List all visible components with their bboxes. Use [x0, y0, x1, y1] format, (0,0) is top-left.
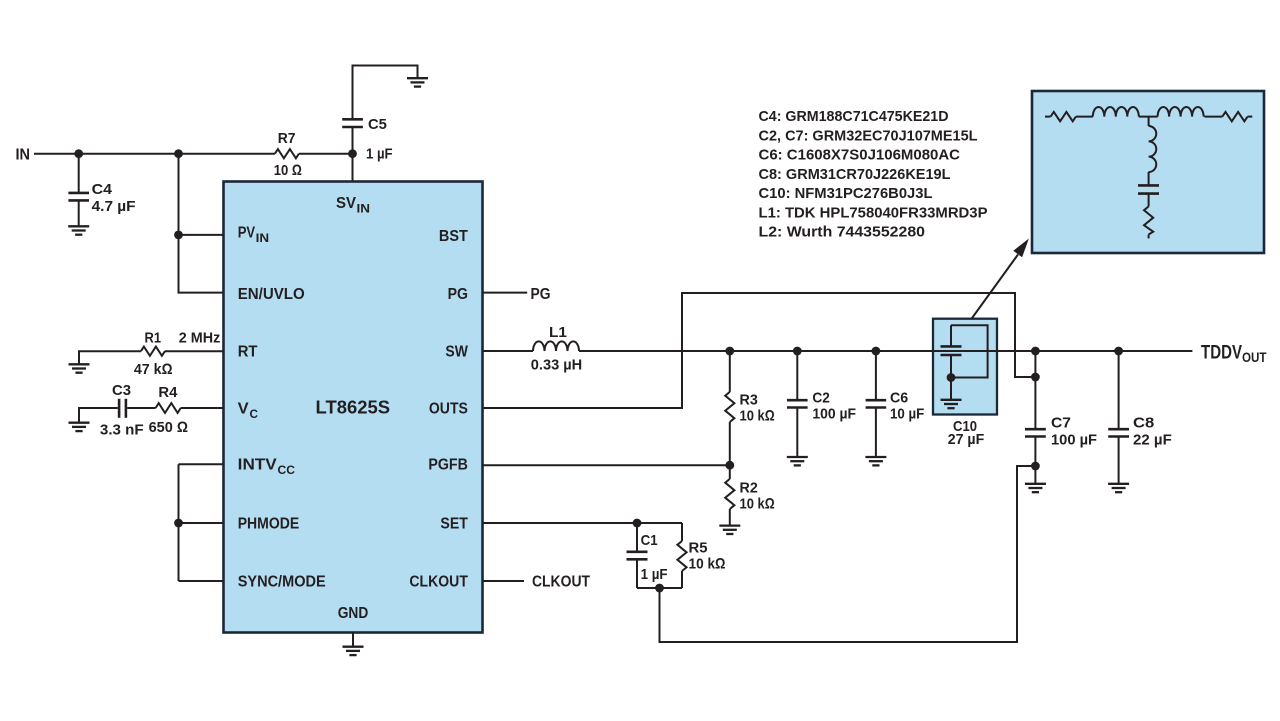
svg-text:C: C [250, 407, 259, 421]
svg-text:C8: GRM31CR70J226KE19L: C8: GRM31CR70J226KE19L [759, 166, 951, 183]
svg-text:OUT: OUT [1242, 349, 1267, 365]
svg-text:100 µF: 100 µF [1051, 432, 1097, 449]
svg-text:2 MHz: 2 MHz [179, 330, 221, 347]
svg-text:OUTS: OUTS [429, 401, 468, 418]
svg-text:0.33 µH: 0.33 µH [531, 356, 582, 373]
svg-text:SW: SW [445, 344, 468, 361]
svg-text:LT8625S: LT8625S [316, 398, 391, 418]
svg-text:L2: Wurth 7443552280: L2: Wurth 7443552280 [759, 224, 926, 241]
svg-text:1 µF: 1 µF [641, 566, 668, 583]
svg-text:R3: R3 [740, 392, 758, 409]
svg-text:INTV: INTV [238, 457, 277, 474]
svg-text:BST: BST [439, 228, 468, 245]
svg-text:C8: C8 [1133, 415, 1154, 432]
svg-text:TDDV: TDDV [1201, 343, 1242, 364]
svg-text:PG: PG [448, 286, 468, 303]
svg-text:C5: C5 [368, 116, 387, 133]
svg-text:CLKOUT: CLKOUT [532, 574, 590, 591]
svg-text:10 kΩ: 10 kΩ [740, 496, 775, 513]
svg-text:R2: R2 [740, 480, 758, 497]
svg-text:CLKOUT: CLKOUT [409, 574, 468, 591]
svg-text:3.3 nF: 3.3 nF [100, 422, 144, 439]
svg-text:L1: TDK HPL758040FR33MRD3P: L1: TDK HPL758040FR33MRD3P [759, 204, 988, 221]
svg-text:L1: L1 [549, 324, 567, 341]
svg-text:27 µF: 27 µF [948, 431, 985, 448]
svg-text:C7: C7 [1051, 415, 1071, 432]
svg-text:IN: IN [256, 231, 270, 245]
svg-text:EN/UVLO: EN/UVLO [238, 286, 305, 303]
svg-text:650 Ω: 650 Ω [149, 419, 188, 436]
svg-text:10 kΩ: 10 kΩ [689, 556, 726, 573]
svg-text:R4: R4 [158, 384, 178, 401]
svg-text:IN: IN [16, 147, 31, 164]
svg-text:C4: GRM188C71C475KE21D: C4: GRM188C71C475KE21D [759, 108, 949, 125]
svg-text:SYNC/MODE: SYNC/MODE [238, 574, 326, 591]
svg-text:SET: SET [440, 516, 468, 533]
svg-text:10 kΩ: 10 kΩ [740, 408, 775, 425]
svg-text:100 µF: 100 µF [812, 406, 856, 423]
svg-text:PV: PV [238, 225, 256, 242]
svg-text:22 µF: 22 µF [1133, 432, 1172, 449]
svg-text:R5: R5 [689, 540, 708, 557]
svg-text:1 µF: 1 µF [366, 146, 393, 163]
svg-text:10 Ω: 10 Ω [274, 162, 302, 179]
svg-text:GND: GND [338, 605, 369, 622]
svg-text:C1: C1 [641, 532, 658, 549]
svg-text:CC: CC [278, 463, 296, 477]
svg-text:C4: C4 [92, 181, 113, 198]
svg-text:SV: SV [336, 195, 356, 212]
svg-text:V: V [238, 401, 249, 418]
svg-text:C2: C2 [812, 390, 830, 407]
svg-text:C10: NFM31PC276B0J3L: C10: NFM31PC276B0J3L [759, 185, 933, 202]
svg-text:C3: C3 [112, 382, 131, 399]
svg-text:R7: R7 [278, 130, 296, 147]
svg-text:PHMODE: PHMODE [238, 516, 300, 533]
svg-text:PGFB: PGFB [428, 457, 468, 474]
svg-text:PG: PG [531, 286, 551, 303]
svg-text:RT: RT [238, 344, 258, 361]
svg-text:4.7 µF: 4.7 µF [92, 198, 136, 215]
svg-text:C2, C7: GRM32EC70J107ME15L: C2, C7: GRM32EC70J107ME15L [759, 127, 978, 144]
svg-text:C6: C1608X7S0J106M080AC: C6: C1608X7S0J106M080AC [759, 147, 961, 164]
svg-text:10 µF: 10 µF [890, 406, 924, 423]
svg-text:47 kΩ: 47 kΩ [134, 361, 173, 378]
svg-text:R1: R1 [145, 330, 162, 347]
svg-text:IN: IN [357, 202, 371, 216]
svg-text:C6: C6 [890, 390, 908, 407]
